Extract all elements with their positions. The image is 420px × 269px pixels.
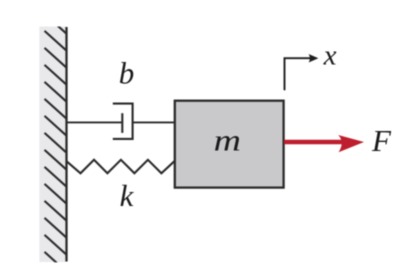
wall hatching bbox=[45, 14, 67, 269]
damper rod right (cylinder to mass) bbox=[133, 121, 176, 123]
damper piston plate bbox=[121, 113, 123, 133]
svg-text:F: F bbox=[371, 123, 392, 158]
svg-text:b: b bbox=[119, 56, 135, 91]
label m bbox=[214, 124, 241, 158]
spring k (wall to mass) bbox=[67, 160, 176, 174]
svg-text:m: m bbox=[214, 124, 241, 158]
force arrowhead bbox=[338, 135, 364, 152]
damper cylinder bbox=[113, 104, 133, 139]
svg-text:x: x bbox=[323, 40, 337, 72]
mass m block bbox=[175, 101, 284, 188]
svg-text:k: k bbox=[120, 178, 135, 213]
x axis arrowhead bbox=[309, 54, 319, 63]
force arrow F (red) bbox=[284, 140, 343, 145]
wall fill bbox=[39, 27, 66, 263]
x axis marker bbox=[285, 58, 311, 90]
damper rod left (wall to piston) bbox=[67, 121, 123, 123]
wall edge line bbox=[65, 27, 67, 262]
